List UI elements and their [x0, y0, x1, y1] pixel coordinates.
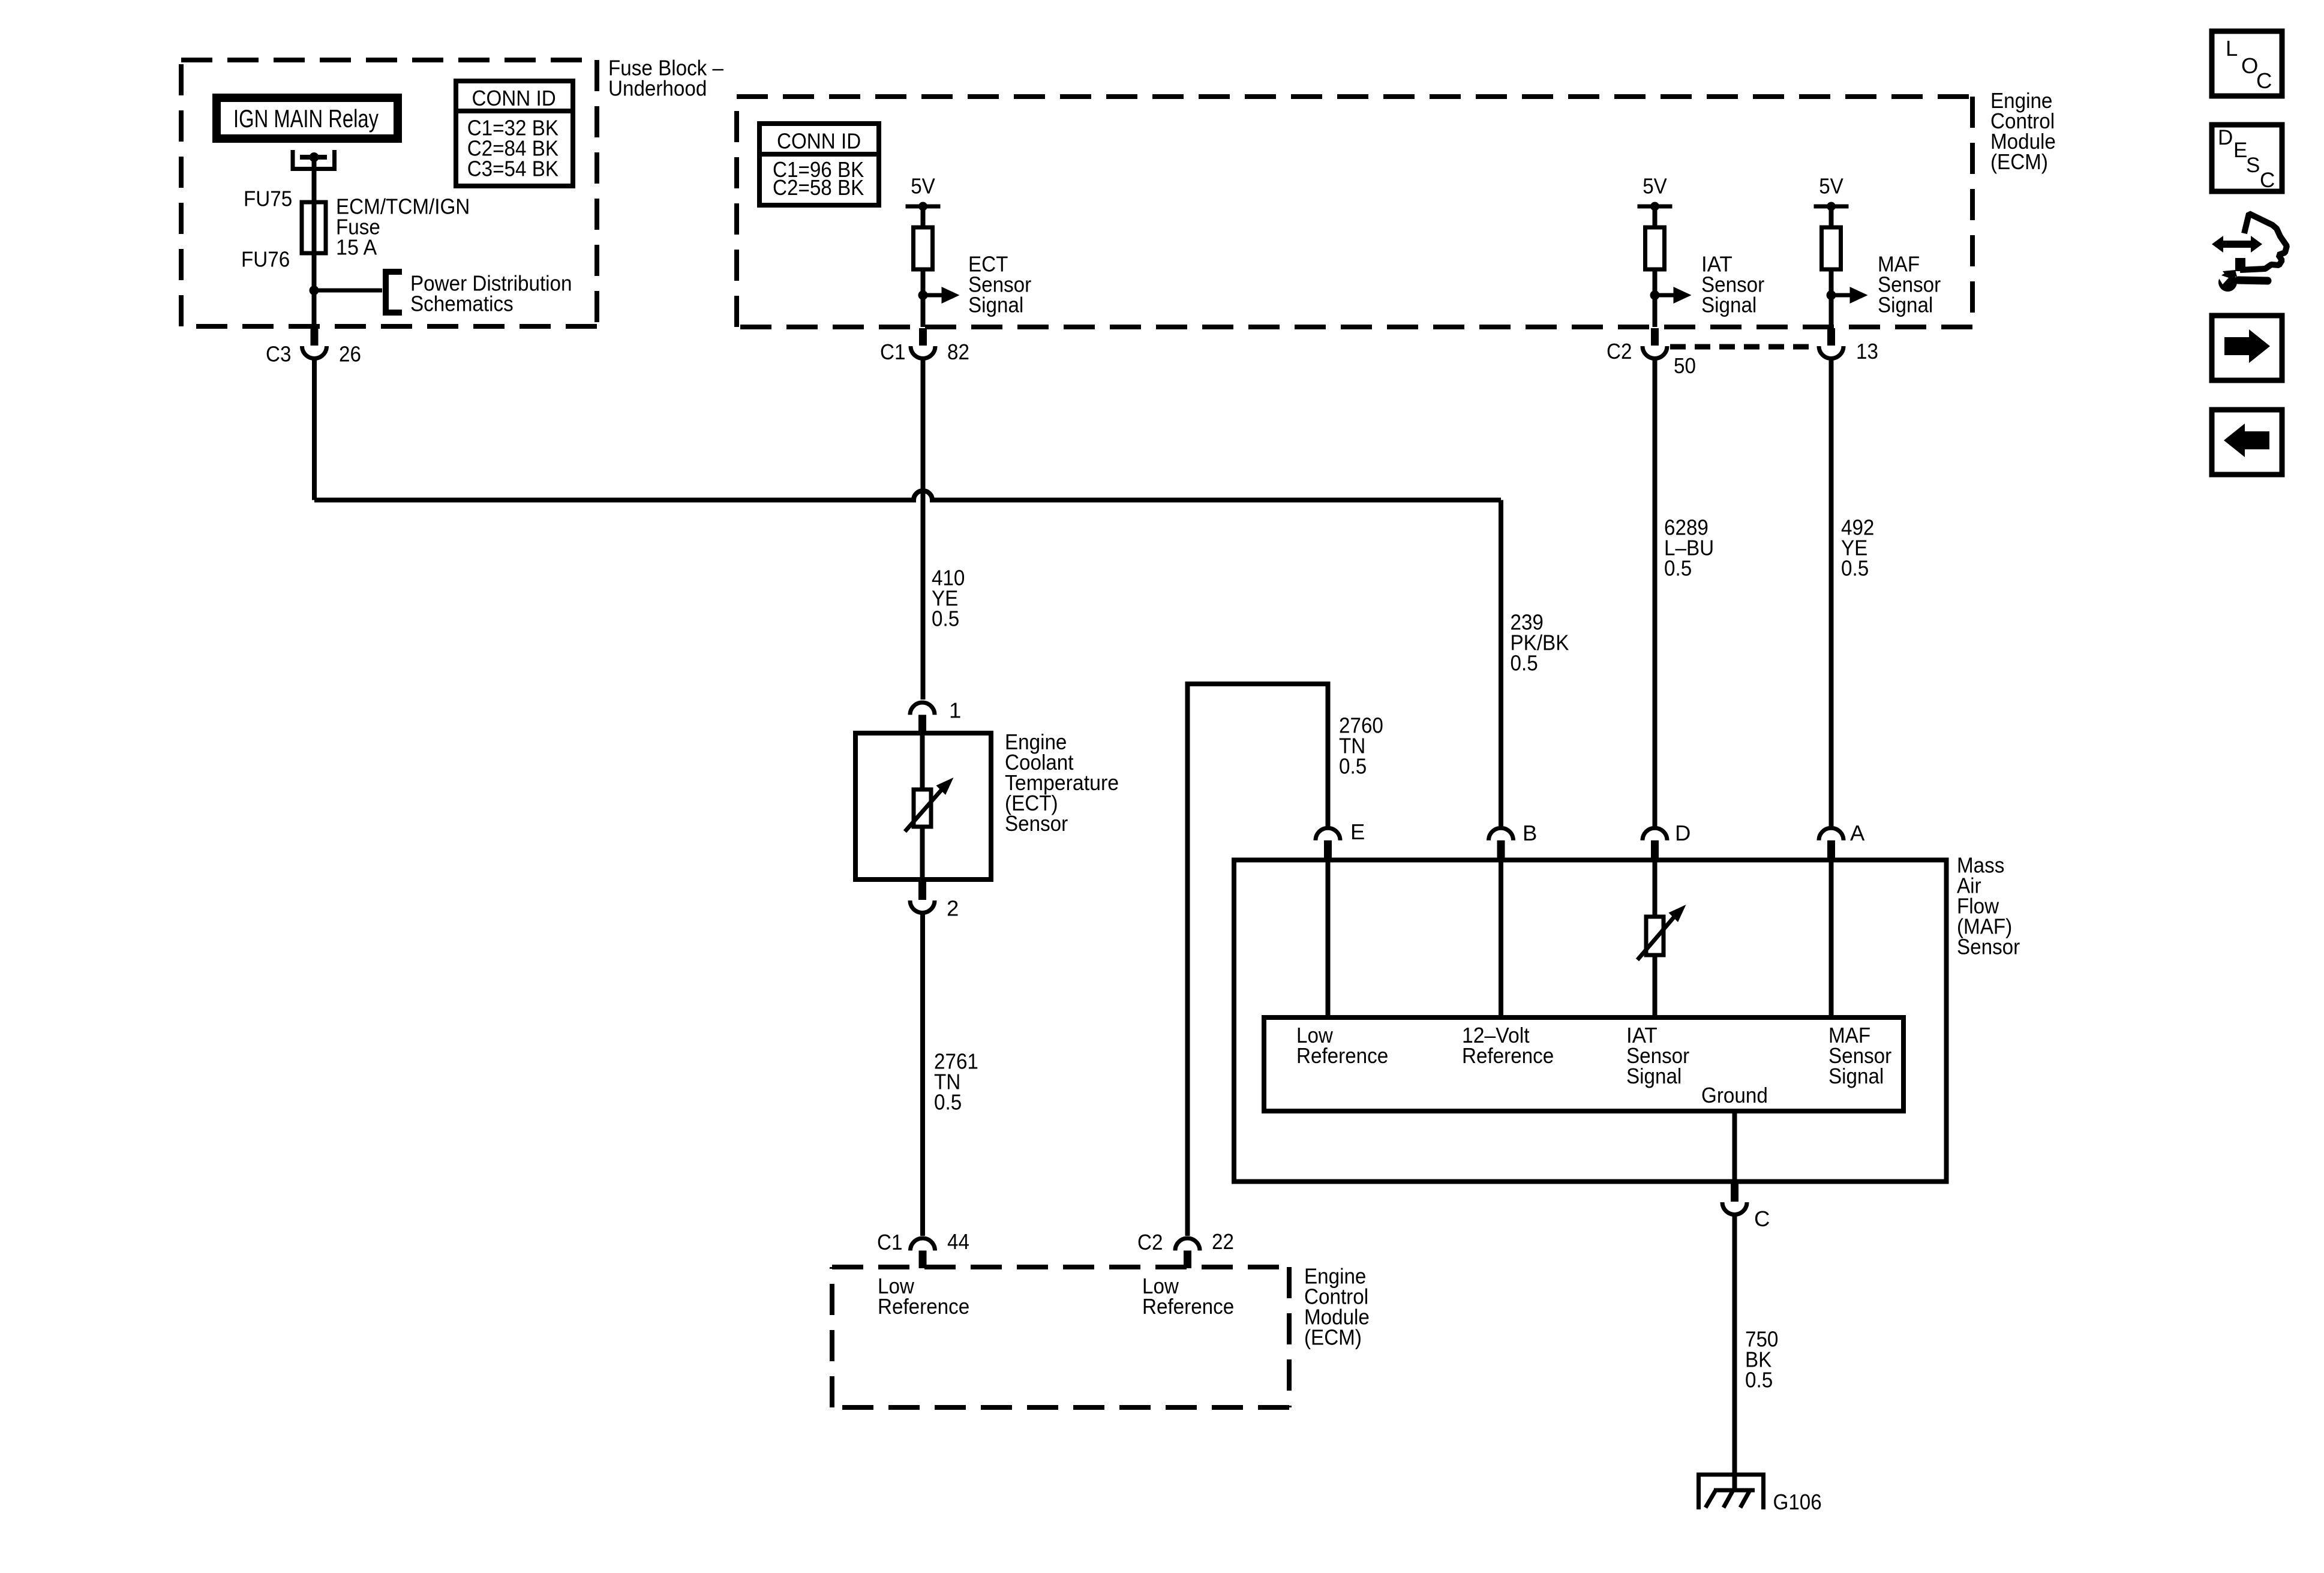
wire: tap to power distribution bracket — [314, 289, 383, 293]
connector ECT pin 1 — [910, 703, 935, 733]
label: 26 — [339, 342, 361, 367]
svg-text:82: 82 — [947, 340, 969, 364]
svg-text:CONN ID: CONN ID — [777, 129, 861, 154]
svg-text:C2: C2 — [1607, 339, 1632, 364]
label: Low Reference (C2 22) — [1142, 1274, 1234, 1319]
connector MAF pin A — [1819, 828, 1843, 860]
wire: circuit 750 BK to G106 — [1733, 1215, 1737, 1490]
svg-text:Underhood: Underhood — [608, 76, 707, 101]
wire: ECT internal upper — [920, 733, 925, 789]
label: MAF Sensor Signal (MAF) — [1828, 1023, 1891, 1088]
label: Low Reference (MAF) — [1296, 1023, 1388, 1068]
svg-text:26: 26 — [339, 342, 361, 367]
label: C1 — [880, 340, 905, 364]
label: 12-Volt Reference — [1462, 1023, 1554, 1068]
wire: circuit 410 YE down to ECT pin 1 — [921, 359, 926, 700]
svg-text:G106: G106 — [1773, 1490, 1822, 1514]
label: 13 — [1856, 339, 1878, 364]
svg-text:Signal: Signal — [1828, 1064, 1884, 1088]
label: B — [1523, 821, 1537, 845]
label: Mass Air Flow (MAF) Sensor — [1957, 852, 2020, 959]
MAF inner module box — [1264, 1017, 1903, 1111]
label: Engine Control Module (ECM) — [1990, 88, 2056, 174]
label: FU76 — [241, 247, 290, 272]
label: D E S C — [2218, 126, 2275, 192]
resistor (ECM internal pull-up, ECT) — [914, 206, 933, 327]
wire: ground lead inside MAF — [1733, 1111, 1737, 1182]
connector C2 pin 22 — [1175, 1238, 1200, 1268]
label: 239 PK/BK 0.5 — [1511, 610, 1569, 676]
label: 44 — [947, 1229, 969, 1254]
connector C2 pin 50 — [1643, 328, 1667, 359]
label: E — [1350, 819, 1365, 844]
svg-text:22: 22 — [1212, 1229, 1234, 1254]
svg-text:Signal: Signal — [1878, 293, 1933, 317]
icon: previous page arrow box — [2212, 410, 2282, 475]
label: A — [1850, 821, 1865, 845]
label: C — [1754, 1206, 1770, 1231]
connector C1 pin 82 — [911, 328, 935, 359]
label: IGN MAIN Relay — [233, 104, 379, 133]
label: IAT Sensor Signal (MAF) — [1626, 1023, 1689, 1088]
label: C1=32 BK / C2=84 BK / C3=54 BK — [467, 116, 559, 181]
label: C2 (lower) — [1137, 1230, 1163, 1254]
thermistor RT IAT element — [1638, 905, 1686, 960]
svg-text:FU76: FU76 — [241, 247, 290, 272]
connector MAF pin E — [1316, 828, 1340, 860]
label: FU75 — [244, 186, 292, 211]
svg-text:0.5: 0.5 — [1339, 754, 1367, 778]
svg-text:0.5: 0.5 — [1664, 556, 1692, 581]
label: 6289 L-BU 0.5 — [1664, 515, 1714, 581]
junction dot at relay contact — [310, 152, 319, 162]
connector C2 pin 13 — [1819, 328, 1843, 359]
icon: vehicle outline with wrench — [2212, 214, 2287, 292]
svg-text:44: 44 — [947, 1229, 969, 1254]
label: 2761 TN 0.5 — [934, 1049, 978, 1114]
svg-text:Reference: Reference — [878, 1294, 969, 1319]
wire: pin B to MAF inner module — [1499, 860, 1503, 1018]
svg-text:C1: C1 — [880, 340, 905, 364]
resistor (ECM internal pull-up, IAT) — [1646, 206, 1665, 327]
svg-text:Signal: Signal — [1701, 293, 1756, 317]
svg-text:13: 13 — [1856, 339, 1878, 364]
svg-text:(ECM): (ECM) — [1304, 1325, 1362, 1350]
node 5V supply (MAF) — [1814, 174, 1849, 211]
label: L O C — [2226, 36, 2272, 93]
label: CONN ID (fuse block) — [472, 86, 556, 110]
MAF sensor outer box — [1234, 860, 1947, 1182]
label: Engine Control Module (ECM) lower — [1304, 1264, 1370, 1350]
fuse block - underhood dashed enclosure — [181, 60, 597, 326]
connector C3 pin 26 — [302, 327, 327, 359]
svg-text:C: C — [2260, 169, 2275, 192]
svg-text:Signal: Signal — [968, 293, 1023, 317]
label: 410 YE 0.5 — [932, 566, 965, 631]
svg-text:Reference: Reference — [1296, 1043, 1388, 1068]
connector ECT pin 2 — [910, 879, 935, 913]
svg-text:E: E — [1350, 819, 1365, 844]
svg-text:C: C — [1754, 1206, 1770, 1231]
thermistor RT ECT element — [905, 778, 954, 831]
svg-text:5V: 5V — [911, 174, 935, 199]
label: 2760 TN 0.5 — [1339, 713, 1383, 778]
label: Ground — [1701, 1083, 1768, 1107]
label: ECM/TCM/IGN Fuse 15 A — [336, 194, 470, 260]
svg-text:Reference: Reference — [1142, 1294, 1234, 1319]
svg-text:0.5: 0.5 — [932, 607, 959, 631]
label: D — [1675, 821, 1691, 845]
svg-text:C2: C2 — [1137, 1230, 1163, 1254]
icon: left arrow glyph — [2224, 424, 2269, 457]
svg-text:Reference: Reference — [1462, 1043, 1554, 1068]
node 5V supply (ECT) — [906, 174, 941, 211]
svg-text:50: 50 — [1674, 353, 1696, 378]
connector C1 pin 44 — [911, 1238, 935, 1268]
label: 750 BK 0.5 — [1745, 1326, 1778, 1392]
wire: IAT thermistor to MAF inner module — [1653, 955, 1658, 1017]
svg-text:15 A: 15 A — [336, 235, 377, 260]
svg-text:(ECM): (ECM) — [1990, 149, 2048, 174]
svg-text:A: A — [1850, 821, 1865, 845]
svg-text:Sensor: Sensor — [1005, 811, 1068, 836]
label: Power Distribution Schematics — [410, 271, 572, 316]
svg-text:D: D — [1675, 821, 1691, 845]
node IAT sensor signal arrow — [1650, 287, 1692, 304]
label: 50 — [1674, 353, 1696, 378]
wire: junction to connector C3 — [312, 290, 317, 327]
wire: circuit 2761 TN to C1 44 — [920, 914, 925, 1236]
svg-text:2: 2 — [947, 896, 959, 920]
svg-text:5V: 5V — [1643, 174, 1667, 199]
wire: horizontal feed 410 with hop over ECT wire — [314, 491, 1501, 500]
icon: LOC box — [2212, 31, 2282, 96]
svg-text:C: C — [2256, 68, 2272, 93]
svg-text:Ground: Ground — [1701, 1083, 1768, 1107]
dashed connector link C2 50-13 — [1670, 344, 1816, 350]
resistor (ECM internal pull-up, MAF) — [1822, 206, 1841, 327]
label: C3 — [266, 342, 291, 367]
label: G106 — [1773, 1490, 1822, 1514]
label: 492 YE 0.5 — [1841, 515, 1874, 581]
label: ECT Sensor Signal — [968, 252, 1031, 317]
node ECT sensor signal arrow — [918, 287, 960, 304]
icon: DESC box — [2212, 125, 2282, 191]
connector MAF pin B — [1489, 828, 1514, 860]
relay K IGN MAIN Relay box — [217, 98, 398, 139]
svg-text:0.5: 0.5 — [934, 1089, 962, 1114]
wire: circuit 239 PK/BK down to pin B — [1499, 500, 1503, 827]
node 5V supply (IAT) — [1638, 174, 1673, 211]
wire: ECT internal lower — [920, 827, 925, 879]
svg-text:B: B — [1523, 821, 1537, 845]
conn-id table (fuse block) — [456, 81, 573, 186]
svg-text:FU75: FU75 — [244, 186, 292, 211]
svg-text:IGN MAIN Relay: IGN MAIN Relay — [233, 104, 379, 133]
label: 2 — [947, 896, 959, 920]
connector MAF pin D — [1643, 828, 1667, 860]
wire: circuit 6289 L-BU down to pin D — [1653, 359, 1658, 826]
label: 82 — [947, 340, 969, 364]
wire: circuit 492 YE down to pin A — [1829, 359, 1834, 826]
svg-text:L: L — [2226, 36, 2238, 61]
svg-text:Sensor: Sensor — [1957, 934, 2020, 959]
svg-text:D: D — [2218, 126, 2233, 149]
node MAF sensor signal arrow — [1827, 287, 1868, 304]
ground G106 symbol — [1697, 1473, 1765, 1509]
label: C1 (lower) — [877, 1230, 902, 1254]
svg-text:E: E — [2233, 139, 2247, 162]
svg-text:Signal: Signal — [1626, 1064, 1682, 1088]
wire: C3 26 to junction row (circuit 410) — [312, 359, 317, 500]
label: 22 — [1212, 1229, 1234, 1254]
engine control module (ECM) lower dashed enclosure — [832, 1267, 1289, 1407]
wire: pin D to IAT thermistor — [1653, 860, 1658, 917]
fuse FU75/FU76 (ECM/TCM/IGN Fuse 15 A) — [302, 202, 326, 253]
power distribution off-page bracket — [386, 272, 402, 313]
svg-text:C3=54 BK: C3=54 BK — [467, 157, 559, 181]
svg-text:0.5: 0.5 — [1745, 1367, 1773, 1392]
conn-id table (ECM) — [759, 124, 879, 205]
wire: pin E to MAF inner module — [1326, 860, 1331, 1018]
wire: pin A to MAF inner module — [1829, 860, 1834, 1018]
connector MAF pin C — [1722, 1182, 1747, 1215]
label: CONN ID (ECM) — [777, 129, 861, 154]
wire: fuse to junction — [312, 253, 317, 290]
svg-text:5V: 5V — [1819, 174, 1843, 199]
svg-text:Schematics: Schematics — [410, 292, 514, 316]
svg-text:S: S — [2246, 154, 2260, 177]
label: Fuse Block - Underhood — [608, 56, 724, 101]
icon: right arrow glyph — [2224, 329, 2270, 363]
label: 1 — [949, 698, 961, 723]
svg-text:0.5: 0.5 — [1841, 556, 1869, 581]
icon: next page arrow box — [2212, 316, 2282, 380]
label: Engine Coolant Temperature (ECT) Sensor — [1005, 730, 1119, 836]
svg-text:C3: C3 — [266, 342, 291, 367]
svg-text:0.5: 0.5 — [1511, 651, 1538, 676]
svg-text:CONN ID: CONN ID — [472, 86, 556, 110]
label: Low Reference (C1 44) — [878, 1274, 969, 1319]
wire: relay contact to fuse FU75 — [312, 157, 317, 202]
svg-text:C1: C1 — [877, 1230, 902, 1254]
wire: circuit 2760 TN from pin E to C2 22 — [1188, 684, 1328, 1236]
label: MAF Sensor Signal — [1878, 252, 1941, 317]
engine control module (ECM) dashed enclosure — [737, 97, 1972, 327]
label: IAT Sensor Signal — [1701, 252, 1764, 317]
svg-text:C2=58 BK: C2=58 BK — [773, 175, 864, 200]
label: C2 — [1607, 339, 1632, 364]
relay contact bracket — [293, 150, 335, 169]
junction dot to power distribution tap — [310, 286, 319, 295]
label: C1=96 BK / C2=58 BK — [773, 157, 864, 200]
ECT sensor box — [855, 733, 991, 879]
svg-text:1: 1 — [949, 698, 961, 723]
